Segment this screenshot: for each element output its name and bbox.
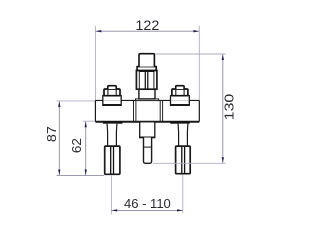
central outlet pipe upper <box>140 122 155 138</box>
extension line 46-110 left <box>110 176 112 215</box>
bar top edge show-through right flange <box>171 99 188 101</box>
svg-text:130: 130 <box>221 94 236 121</box>
left mounting flange <box>103 96 121 105</box>
extension line 46-110 right <box>182 175 184 214</box>
extension line 122 right <box>198 26 200 100</box>
body joint lines left of cartridge <box>133 100 135 121</box>
cartridge cap <box>139 54 154 67</box>
cartridge collar <box>137 67 156 71</box>
right hex fitting <box>176 146 191 174</box>
central pipe joint line <box>144 146 152 148</box>
central outlet pipe lower <box>144 138 152 164</box>
left hex nut <box>104 89 120 96</box>
body bar <box>95 100 199 121</box>
right mounting flange <box>171 96 190 105</box>
cartridge spline block <box>136 70 157 89</box>
right pipe taper <box>178 124 188 146</box>
extension line 130 bottom (over fitting) <box>153 162 226 164</box>
svg-text:62: 62 <box>69 138 84 153</box>
extension line 87 top <box>57 100 95 102</box>
cartridge base flare <box>136 99 159 101</box>
svg-text:122: 122 <box>135 18 159 33</box>
left pipe seat band <box>103 121 123 123</box>
body joint lines right of cartridge <box>159 100 161 121</box>
dimension line 46-110 <box>112 209 183 211</box>
cartridge neck <box>139 89 155 99</box>
cartridge spline inner lines <box>138 72 140 89</box>
dimension line 62 <box>85 122 87 176</box>
extension line 62 top <box>83 120 95 122</box>
dimension line 130 <box>222 54 224 163</box>
extension line 87-62 bottom <box>57 174 105 176</box>
dimension line 122 <box>96 30 200 32</box>
left nut cap <box>108 86 116 89</box>
right nut cap <box>176 86 184 89</box>
extension line 122 left <box>94 26 96 100</box>
dimension line 87 <box>58 101 60 175</box>
left hex fitting <box>105 146 120 174</box>
svg-text:46 - 110: 46 - 110 <box>124 196 171 211</box>
right hex nut <box>172 89 188 96</box>
bar top edge show-through left flange <box>104 99 121 101</box>
right pipe seat band <box>170 121 189 123</box>
extension line 130 top <box>155 53 225 55</box>
svg-text:87: 87 <box>44 126 59 142</box>
left pipe taper <box>107 124 117 146</box>
